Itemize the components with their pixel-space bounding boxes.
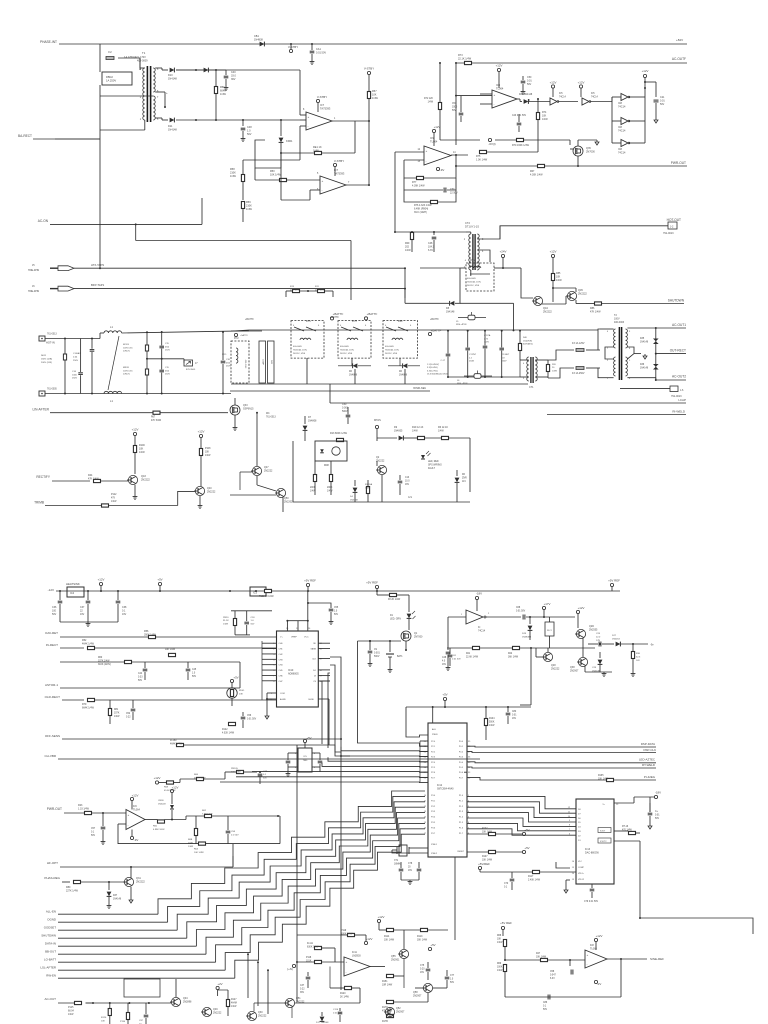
diode D7 1N4808 [304, 416, 306, 424]
wire ic11 lower [352, 987, 361, 989]
svg-text:AC-ON: AC-ON [38, 219, 49, 223]
ground xtal [401, 879, 419, 881]
svg-text:+BATTF: +BATTF [431, 329, 442, 333]
wire opamp out [517, 98, 520, 100]
wire mov center link [147, 358, 184, 360]
svg-text:479: 479 [111, 497, 116, 499]
svg-text:1/4W: 1/4W [188, 846, 194, 848]
svg-text:IOUT2: IOUT2 [600, 841, 607, 843]
svg-text:ASTOR-1: ASTOR-1 [45, 683, 58, 687]
wire SHUTDWN [58, 937, 187, 939]
svg-text:22 50V: 22 50V [450, 191, 458, 194]
resistor R34 10K [199, 842, 206, 845]
node +N [292, 964, 295, 967]
svg-text:+12V: +12V [198, 430, 205, 434]
svg-text:R20: R20 [552, 364, 557, 366]
svg-text:0.01 50V: 0.01 50V [516, 610, 526, 612]
ground arrow [655, 118, 657, 120]
wire DSP-DATA [467, 745, 656, 748]
svg-text:10K 1/4W: 10K 1/4W [384, 939, 395, 941]
svg-text:PI-42EG: PI-42EG [644, 775, 656, 779]
wire VRLJ2 gnd [566, 879, 570, 881]
svg-text:50V: 50V [334, 614, 339, 616]
node +5VREF dac [478, 866, 481, 869]
svg-text:VRLJ+: VRLJ+ [578, 873, 585, 875]
svg-text:1/4W: 1/4W [114, 716, 120, 718]
capacitor C9 [369, 641, 371, 650]
svg-text:RY3: RY3 [470, 258, 476, 262]
wire relay bottom links [306, 358, 308, 384]
capacitor C50c [346, 414, 351, 416]
capacitor C81 [649, 803, 651, 812]
svg-text:227K 1/4W: 227K 1/4W [66, 889, 79, 892]
svg-text:R126: R126 [101, 1017, 107, 1019]
svg-text:+12V: +12V [172, 786, 179, 790]
resistor R8 2K [390, 593, 397, 596]
wire sine input [505, 959, 540, 961]
svg-text:CLK: CLK [312, 659, 317, 661]
svg-text:+12V: +12V [578, 606, 585, 610]
svg-text:1: 1 [140, 119, 142, 121]
svg-text:22.6K 1/4W: 22.6K 1/4W [466, 656, 479, 658]
svg-text:TRIMB: TRIMB [34, 501, 44, 505]
svg-text:1/4W: 1/4W [313, 149, 319, 152]
svg-text:P3.4: P3.4 [431, 817, 436, 819]
svg-text:RT-WELD: RT-WELD [642, 763, 655, 767]
svg-text:+BATTF: +BATTF [330, 316, 339, 319]
svg-text:IC5: IC5 [559, 93, 563, 95]
wire 27k loop [286, 290, 293, 292]
svg-text:36K 1/4W: 36K 1/4W [508, 656, 519, 658]
svg-text:R114: R114 [384, 936, 390, 938]
svg-text:R165: R165 [598, 775, 604, 777]
svg-text:50V: 50V [251, 623, 255, 625]
resistor R68b 10K [503, 940, 506, 947]
svg-text:R21: R21 [466, 653, 471, 655]
capacitor C79 [591, 884, 593, 888]
svg-text:760/10A, CON.: 760/10A, CON. [293, 348, 308, 351]
svg-text:C45: C45 [192, 669, 197, 671]
svg-text:C53: C53 [251, 617, 256, 619]
wire secondary bottom [155, 117, 162, 119]
svg-text:8: 8 [303, 109, 305, 111]
svg-text:1000: 1000 [72, 374, 78, 376]
wire T2 right top to AC-OUT1 [627, 327, 655, 329]
svg-text:10K: 10K [205, 451, 210, 453]
svg-text:C70: C70 [504, 883, 509, 885]
svg-text:P130: P130 [120, 1021, 126, 1023]
capacitor C48 [242, 120, 244, 126]
capacitor C48b [433, 232, 435, 235]
svg-text:BB-OUT: BB-OUT [45, 950, 56, 954]
svg-text:+5V REF: +5V REF [608, 579, 620, 583]
svg-text:P2.2: P2.2 [431, 751, 436, 753]
svg-text:V-STBY: V-STBY [364, 67, 374, 71]
svg-text:+5V: +5V [524, 828, 529, 832]
svg-text:CT2: CT2 [465, 221, 470, 225]
svg-text:C-17: C-17 [440, 360, 445, 362]
capacitor C21 [654, 99, 659, 101]
svg-text:2N2898: 2N2898 [183, 1000, 192, 1003]
svg-text:J7: J7 [195, 362, 198, 365]
capacitor C68 [522, 615, 524, 620]
capacitor C38 0.1 16V [117, 591, 119, 600]
node +12V inv [643, 74, 646, 77]
svg-text:P1.0: P1.0 [459, 795, 464, 797]
wire IC10 bottom [267, 692, 277, 694]
wire loop to MCU [358, 641, 429, 746]
capacitor C51 3300 [460, 96, 462, 112]
capacitor C13 [399, 475, 401, 480]
wire q2d-q38 [582, 638, 584, 657]
svg-text:7: 7 [607, 348, 609, 350]
svg-text:D7: D7 [578, 813, 581, 815]
node +24V [501, 254, 504, 257]
wire vertical bus c [454, 862, 456, 940]
svg-text:500V: 500V [374, 656, 380, 658]
svg-text:1.8: 1.8 [502, 357, 506, 359]
svg-text:-: - [426, 159, 427, 163]
svg-text:74C14: 74C14 [559, 96, 566, 98]
resistor R21 22.6K [473, 646, 480, 649]
terminal J1 761-0013 HOT-IN [39, 336, 45, 341]
svg-text:1.0: 1.0 [450, 978, 454, 980]
svg-text:+: + [308, 115, 310, 119]
resistor R66 45.5K [197, 777, 204, 780]
wire opamp2 out [346, 184, 369, 186]
transistor Q47 2N2222 [252, 466, 261, 475]
svg-text:MTAS: MTAS [374, 419, 381, 422]
svg-text:AC-OUT: AC-OUT [45, 997, 57, 1001]
svg-text:1/4W: 1/4W [205, 455, 211, 457]
resistor R117 2.40K [533, 870, 540, 873]
wire VCC riser [307, 602, 309, 631]
transistor Q52 2N2907 [385, 1007, 394, 1016]
svg-text:D37: D37 [113, 895, 118, 897]
svg-text:OAV-RET: OAV-RET [45, 631, 58, 635]
svg-text:2N2222: 2N2222 [141, 478, 150, 481]
svg-text:AC-OUTF: AC-OUTF [672, 57, 686, 61]
node +12V d40 [170, 789, 173, 792]
svg-text:0.01: 0.01 [512, 714, 517, 716]
svg-text:100K: 100K [497, 966, 503, 968]
wire branch BB-OUT to Q46 [247, 954, 249, 998]
svg-text:CH1: CH1 [279, 649, 284, 651]
svg-text:47K 5/4W: 47K 5/4W [151, 420, 162, 422]
svg-text:P0.0: P0.0 [459, 741, 464, 743]
wire hf bus [232, 856, 234, 867]
svg-text:TA75393: TA75393 [334, 171, 345, 175]
svg-text:IC5: IC5 [303, 756, 307, 758]
svg-text:LO-BATT: LO-BATT [44, 958, 56, 962]
svg-text:2N7000: 2N7000 [414, 635, 423, 638]
wire inv out [486, 616, 521, 618]
capacitor C53 [246, 611, 248, 621]
wire Q44-Q45 [542, 303, 566, 305]
svg-text:16V: 16V [408, 870, 413, 872]
node +5ATTF [234, 333, 237, 336]
svg-text:500K: 500K [489, 721, 495, 723]
svg-text:CH2: CH2 [279, 654, 284, 656]
svg-text:12: 12 [424, 806, 427, 808]
svg-text:250V: 250V [502, 361, 507, 363]
node -6V [488, 138, 491, 141]
svg-text:50V: 50V [660, 103, 665, 106]
node +17V [542, 606, 545, 609]
svg-text:+BATTF: +BATTF [333, 312, 344, 316]
svg-text:1: 1 [334, 118, 336, 120]
svg-text:OFF-SENS: OFF-SENS [45, 734, 60, 738]
resistor F9 20A [366, 487, 369, 494]
resistor R22 36K [513, 646, 520, 649]
svg-text:+12V: +12V [434, 125, 441, 129]
zener KD01 [280, 120, 282, 136]
svg-text:C17/N7: C17/N7 [469, 354, 477, 356]
svg-text:0.01 50V: 0.01 50V [452, 658, 461, 660]
svg-text:C68: C68 [516, 607, 521, 609]
svg-text:LED, GRN: LED, GRN [390, 618, 401, 620]
resistor R11C 30K [421, 928, 428, 931]
wire PWR-OUT in [64, 812, 84, 814]
svg-text:2N2222: 2N2222 [258, 1014, 267, 1017]
resistor R13 800K [337, 438, 344, 441]
capacitor C75 [427, 962, 429, 968]
capacitor C24 [598, 642, 600, 647]
svg-text:+5V: +5V [442, 693, 447, 697]
op-amp IC6 TL064 a [126, 810, 145, 830]
svg-text:761-0013: 761-0013 [47, 334, 57, 336]
capacitor C50b [522, 76, 524, 80]
svg-text:P2.4: P2.4 [431, 762, 436, 764]
resistor R103 90 [265, 589, 272, 592]
svg-text:CT1: CT1 [529, 386, 534, 389]
node +5V mcu [443, 697, 446, 700]
svg-text:400-0009: 400-0009 [137, 60, 148, 63]
svg-text:+: + [128, 813, 130, 817]
capacitor C58b [287, 753, 289, 760]
svg-text:1/4W: 1/4W [230, 175, 236, 178]
svg-text:16V: 16V [442, 664, 447, 666]
wire LED-AZTEC [467, 762, 656, 763]
svg-text:+12V: +12V [154, 776, 161, 780]
resistor R119 100K [348, 933, 355, 936]
box COMP [259, 341, 266, 383]
node +12V r64 [155, 781, 158, 784]
resistor R07 4.30K [538, 164, 545, 167]
svg-text:C57: C57 [91, 828, 96, 830]
svg-text:50V: 50V [91, 835, 96, 837]
ic IC10 AD8600 [277, 631, 319, 707]
wire P2 bundle [297, 745, 341, 756]
svg-text:464K 1/4W: 464K 1/4W [82, 642, 95, 645]
svg-text:1/4W: 1/4W [139, 451, 145, 454]
ic IC5 ICL7660 [298, 748, 312, 772]
svg-text:R22: R22 [508, 653, 513, 655]
svg-text:DSP-DATA: DSP-DATA [641, 742, 655, 746]
svg-text:50V: 50V [527, 83, 532, 86]
svg-text:1N4x48: 1N4x48 [158, 803, 166, 805]
relay RY2 400-0146 [231, 341, 249, 383]
svg-text:PSEN: PSEN [432, 734, 438, 736]
node +5VREF [306, 583, 309, 586]
svg-text:16.3/100VAC(5L/1900): 16.3/100VAC(5L/1900) [427, 373, 448, 376]
svg-text:8: 8 [629, 348, 631, 350]
svg-text:(+N): (+N) [287, 967, 293, 971]
svg-text:760/10A, CON.: 760/10A, CON. [340, 348, 355, 351]
resistor R81 337K [108, 709, 111, 716]
inverter IC8 74C14 a [621, 94, 628, 101]
svg-text:P1.5: P1.5 [459, 822, 464, 824]
transistor Q30 2N2222 [247, 1011, 256, 1020]
terminal J2 761-0005 [39, 391, 45, 396]
svg-text:100V 0.65: 100V 0.65 [123, 370, 133, 372]
wire RECTIFY [52, 480, 90, 482]
svg-text:10K 1/4W: 10K 1/4W [165, 649, 176, 651]
svg-text:1/4W: 1/4W [111, 501, 117, 503]
svg-text:7660: 7660 [303, 760, 308, 762]
node +12V ic11 [364, 941, 367, 944]
wire sine out [607, 958, 647, 960]
svg-text:DSP-CLK: DSP-CLK [643, 748, 656, 752]
svg-text:7.5H 1/4W: 7.5H 1/4W [202, 813, 213, 815]
crystal XT1 16MHz [399, 845, 407, 856]
node +5VREF sine [501, 926, 504, 929]
svg-text:P2.0: P2.0 [431, 741, 436, 743]
svg-text:J5: J5 [456, 321, 459, 323]
wire CLK vertical [330, 657, 341, 756]
wire CT2 rail [395, 231, 412, 233]
svg-text:50V: 50V [52, 613, 57, 616]
resistor PR105 10K [237, 770, 244, 773]
svg-text:4.99K 1/4W: 4.99K 1/4W [153, 829, 165, 831]
wire q1 rail [358, 640, 402, 642]
svg-text:10: 10 [424, 795, 427, 797]
svg-text:CS: CS [313, 681, 316, 683]
svg-text:6.3V: 6.3V [428, 249, 433, 252]
svg-text:464M: 464M [231, 1002, 237, 1004]
wire SHUTDWN rail [602, 303, 685, 305]
svg-text:CH5: CH5 [279, 670, 284, 672]
svg-text:5: 5 [317, 173, 319, 175]
svg-text:C86: C86 [543, 1002, 548, 1004]
resistor R127 464M [226, 1000, 229, 1007]
svg-text:36V: 36V [300, 992, 305, 994]
wire opamp out [145, 819, 158, 821]
svg-text:11: 11 [424, 800, 427, 802]
transistor Q34 2N2898 [171, 997, 180, 1006]
svg-text:5: 5 [629, 360, 631, 362]
svg-text:2: 2 [607, 360, 609, 362]
svg-text:6: 6 [365, 325, 367, 327]
svg-text:+BATTF: +BATTF [245, 318, 254, 321]
wire BB-OUT [58, 953, 206, 955]
svg-text:PWR-OUT: PWR-OUT [47, 807, 62, 811]
svg-text:GODSET: GODSET [44, 926, 56, 930]
svg-text:1: 1 [461, 614, 463, 616]
svg-text:XTAL2: XTAL2 [431, 852, 438, 855]
wire DAC IOUT [614, 830, 629, 832]
svg-text:MRV8: MRV8 [123, 367, 130, 369]
svg-text:+84V: +84V [676, 38, 683, 42]
resistor R52 464K [88, 646, 95, 649]
svg-text:2N2907: 2N2907 [396, 1010, 405, 1013]
svg-text:LM2903: LM2903 [352, 954, 361, 957]
svg-text:1N4148: 1N4148 [640, 367, 649, 369]
capacitor C55 [308, 603, 331, 608]
svg-text:D6: D6 [399, 371, 403, 373]
svg-text:26: 26 [308, 628, 311, 630]
svg-text:664K 1/4W: 664K 1/4W [82, 706, 95, 709]
svg-text:91.2K: 91.2K [223, 620, 229, 622]
wire xfmr-neu [230, 390, 430, 392]
svg-text:16: 16 [424, 827, 427, 829]
svg-text:P0.3: P0.3 [459, 757, 464, 759]
wire Q31 collector [130, 867, 132, 878]
svg-text:0.1: 0.1 [91, 831, 95, 833]
ground [225, 86, 227, 88]
svg-text:SHUTDWN: SHUTDWN [668, 299, 685, 303]
capacitor C56b [242, 712, 244, 716]
wire cross bus [136, 240, 351, 242]
svg-text:+17V: +17V [544, 602, 551, 606]
resistor R178 [387, 1000, 394, 1003]
svg-text:1N4808: 1N4808 [308, 419, 317, 422]
svg-text:P3.7: P3.7 [431, 833, 436, 835]
svg-text:350K 1/4W: 350K 1/4W [144, 633, 157, 636]
svg-text:20: 20 [552, 367, 555, 369]
svg-text:IC3: IC3 [253, 591, 258, 595]
svg-text:50V: 50V [543, 1009, 548, 1011]
resistor R126 [108, 1009, 111, 1016]
svg-text:C9: C9 [374, 649, 378, 651]
capacitor C57 [102, 813, 104, 826]
svg-text:P0.1: P0.1 [459, 746, 464, 748]
svg-text:50V: 50V [192, 676, 197, 678]
svg-text:D24 BN4148: D24 BN4148 [519, 94, 533, 96]
wire ALL-EN [58, 913, 158, 915]
wire PI-42EG [464, 771, 467, 773]
svg-text:P1.4: P1.4 [459, 817, 464, 819]
wire to T2 [598, 329, 600, 350]
capacitor C52 [132, 700, 134, 708]
svg-text:4.30K 1/4W: 4.30K 1/4W [530, 173, 543, 176]
box W01 [268, 341, 275, 383]
svg-text:22.0: 22.0 [596, 636, 601, 638]
wire Q35 source to PWR-OUT [577, 156, 579, 166]
resistor R64 45.5K [167, 781, 174, 784]
svg-text:14: 14 [453, 152, 456, 154]
svg-text:10K 1/4W: 10K 1/4W [194, 852, 205, 854]
svg-text:OLR-RECT: OLR-RECT [45, 695, 61, 699]
svg-text:HOT-OUT: HOT-OUT [667, 218, 681, 222]
svg-text:1N4148: 1N4148 [640, 341, 649, 343]
wire GODSET [58, 929, 177, 931]
svg-text:P3.1: P3.1 [431, 800, 436, 802]
svg-text:16V: 16V [512, 718, 517, 720]
svg-text:J-6: J-6 [680, 389, 684, 392]
resistor R120 7K [345, 986, 352, 989]
svg-text:C17ALT: C17ALT [502, 353, 510, 356]
wire opamp plus in [456, 95, 492, 97]
wire relay drive riser [404, 268, 406, 298]
wire heatsink rail [56, 590, 345, 592]
svg-text:SARB: SARB [311, 648, 317, 651]
svg-text:10K 1/4W: 10K 1/4W [482, 831, 493, 833]
svg-text:C116: C116 [333, 1009, 339, 1011]
svg-text:C14/AC: C14/AC [73, 352, 81, 355]
svg-text:2N2222: 2N2222 [543, 310, 552, 313]
wire IN-RECT [60, 647, 84, 649]
